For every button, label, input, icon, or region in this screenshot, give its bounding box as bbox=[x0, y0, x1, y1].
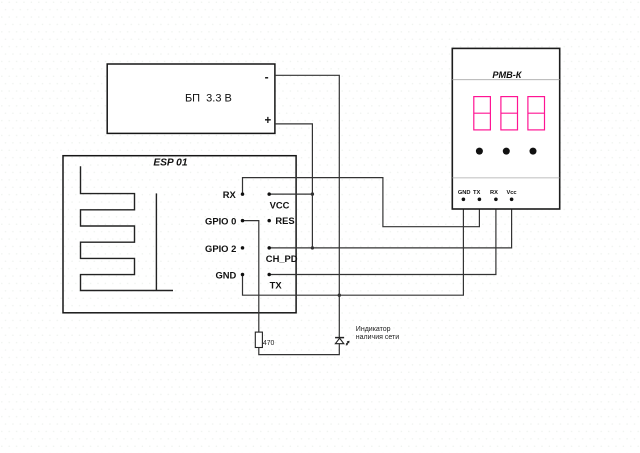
wire: CH_PD to PMB-K Vcc bbox=[269, 199, 511, 248]
antenna feed stub bbox=[155, 193, 157, 290]
ESP pin GPIO 2 bbox=[205, 243, 244, 254]
junction plus rail / CH_PD bbox=[311, 246, 314, 249]
svg-text:TX: TX bbox=[270, 279, 283, 290]
svg-text:Vcc: Vcc bbox=[506, 190, 516, 196]
seven-segment digit 1 bbox=[474, 97, 491, 130]
seven-segment digit 3 bbox=[528, 97, 545, 130]
wire: BP plus rail bbox=[275, 124, 313, 248]
svg-text:+: + bbox=[264, 115, 271, 127]
PCB antenna meander bbox=[81, 166, 174, 290]
svg-text:RX: RX bbox=[490, 190, 498, 196]
wire: resistor to LED anode bbox=[259, 344, 340, 355]
svg-text:VCC: VCC bbox=[270, 200, 290, 211]
indicator dot 2 bbox=[503, 148, 510, 155]
PMB-K pin GND bbox=[458, 190, 471, 201]
seven-segment digit 2 bbox=[501, 97, 518, 130]
svg-text:ESP 01: ESP 01 bbox=[153, 158, 188, 169]
resistor R1 bbox=[255, 332, 262, 347]
ESP pin CH_PD bbox=[266, 246, 298, 264]
wire: ESP GND to PMB-K GND bbox=[243, 199, 464, 295]
svg-text:БП 3.3 В: БП 3.3 В bbox=[185, 92, 232, 104]
svg-text:GND: GND bbox=[458, 190, 471, 196]
wire: GPIO 0 to resistor bbox=[243, 221, 259, 333]
separator line under title bbox=[452, 79, 559, 81]
svg-text:RX: RX bbox=[223, 189, 237, 200]
indicator dot 3 bbox=[530, 148, 537, 155]
power supply BP1 box bbox=[107, 64, 275, 133]
svg-text:TX: TX bbox=[473, 190, 480, 196]
wire: ESP RX to PMB-K TX bbox=[243, 178, 480, 227]
LED VD1 bbox=[335, 338, 350, 346]
wire: BP minus to ground rail bbox=[275, 75, 339, 337]
svg-text:-: - bbox=[265, 70, 269, 84]
PMB-K display module box bbox=[452, 48, 559, 209]
wire: VCC to plus rail bbox=[269, 193, 312, 195]
junction plus rail / VCC bbox=[311, 192, 314, 195]
svg-text:470: 470 bbox=[263, 340, 275, 347]
svg-text:наличия сети: наличия сети bbox=[356, 334, 399, 341]
ESP pin GPIO 0 bbox=[205, 216, 244, 227]
ESP pin RES bbox=[267, 215, 294, 226]
separator line above pins bbox=[452, 177, 559, 179]
ESP pin TX bbox=[267, 273, 282, 291]
wire: ESP TX to PMB-K RX bbox=[269, 199, 496, 274]
svg-text:Индикатор: Индикатор bbox=[356, 326, 391, 333]
svg-text:CH_PD: CH_PD bbox=[266, 253, 298, 264]
ESP pin RX bbox=[223, 189, 244, 200]
PMB-K pin Vcc bbox=[506, 190, 516, 201]
ESP pin VCC bbox=[267, 192, 289, 210]
indicator dot 1 bbox=[476, 148, 483, 155]
svg-text:RES: RES bbox=[275, 215, 294, 226]
svg-text:РМВ-К: РМВ-К bbox=[492, 70, 522, 80]
ESP-01 module box bbox=[63, 156, 296, 313]
svg-text:GPIO 0: GPIO 0 bbox=[205, 216, 236, 227]
PMB-K pin RX bbox=[490, 190, 498, 201]
svg-text:GPIO 2: GPIO 2 bbox=[205, 243, 236, 254]
PMB-K pin TX bbox=[473, 190, 481, 201]
junction ground rail / GND bbox=[338, 294, 341, 297]
svg-text:GND: GND bbox=[215, 269, 236, 280]
ESP pin GND bbox=[215, 269, 244, 280]
